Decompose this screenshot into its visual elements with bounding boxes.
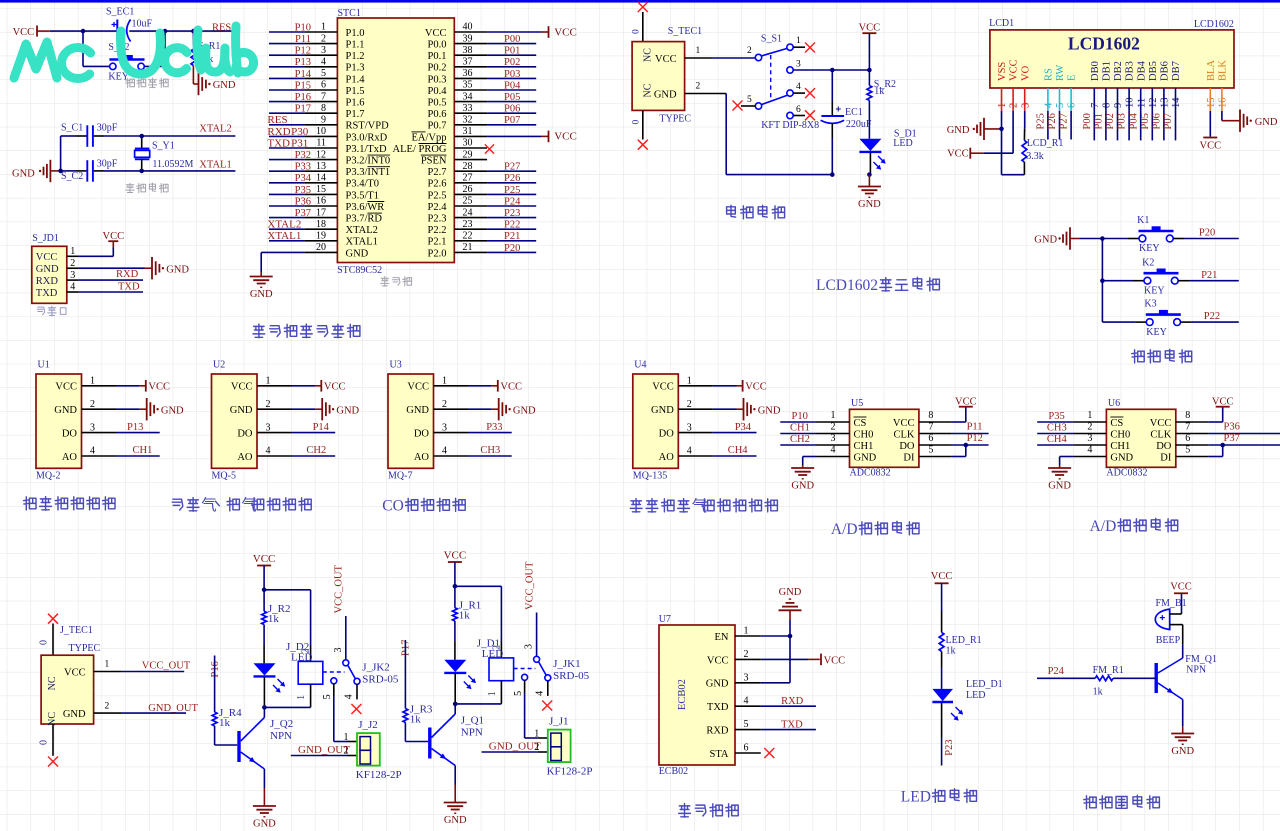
gray caption jing-zhen-dian-lu (crystal circuit) bbox=[126, 183, 134, 193]
svg-text:P15: P15 bbox=[295, 80, 311, 91]
svg-text:38: 38 bbox=[463, 45, 473, 56]
svg-text:LCD1602: LCD1602 bbox=[816, 277, 878, 294]
svg-text:17: 17 bbox=[316, 207, 326, 218]
svg-text:CS: CS bbox=[1110, 418, 1123, 429]
svg-text:P06: P06 bbox=[504, 104, 520, 115]
wire U5 CLK to net P11 bbox=[952, 421, 989, 433]
power port VCC (buzzer) bbox=[1170, 582, 1192, 614]
capacitor S_C1 30pF bbox=[61, 122, 118, 146]
svg-text:VCC: VCC bbox=[324, 382, 346, 393]
svg-text:4: 4 bbox=[266, 446, 271, 457]
svg-text:A/D: A/D bbox=[831, 521, 858, 538]
LCD module LCD1 LCD1602 bbox=[989, 18, 1234, 88]
sensor module U2 MQ-5 bbox=[212, 359, 292, 481]
transistor J_Q1 NPN bbox=[430, 704, 484, 803]
svg-text:P23: P23 bbox=[504, 208, 520, 219]
svg-text:0: 0 bbox=[39, 740, 50, 745]
relay J_JK1 switch contacts bbox=[513, 561, 590, 696]
svg-text:P3.3/INT1: P3.3/INT1 bbox=[346, 167, 391, 178]
power port VCC (pin31) bbox=[549, 131, 577, 143]
svg-text:GND_OUT: GND_OUT bbox=[148, 703, 198, 714]
svg-text:NPN: NPN bbox=[270, 730, 292, 742]
svg-text:P05: P05 bbox=[504, 92, 520, 103]
svg-text:DO: DO bbox=[237, 429, 253, 440]
svg-text:31: 31 bbox=[463, 126, 473, 137]
svg-text:12: 12 bbox=[1148, 98, 1159, 109]
wire U7 RXD to net TXD bbox=[761, 720, 816, 731]
svg-text:P2.3: P2.3 bbox=[428, 214, 447, 225]
title natural gas / coal gas detect bbox=[172, 499, 183, 510]
svg-text:LCD1602: LCD1602 bbox=[1194, 19, 1234, 30]
ground GND (U1, side style) bbox=[146, 398, 148, 420]
svg-text:P1.5: P1.5 bbox=[346, 86, 365, 97]
svg-text:5: 5 bbox=[321, 68, 326, 79]
svg-text:1: 1 bbox=[296, 695, 307, 700]
svg-text:GND: GND bbox=[1171, 746, 1194, 757]
svg-text:3: 3 bbox=[744, 672, 749, 683]
svg-text:0: 0 bbox=[39, 640, 50, 645]
capacitor S_C2 30pF bbox=[61, 159, 118, 183]
ground GND (key circuit, side style mirrored) bbox=[1034, 227, 1080, 249]
svg-text:VCC: VCC bbox=[1170, 582, 1192, 593]
ground GND (LCD VSS, side style) bbox=[947, 118, 1002, 140]
svg-text:J_J2: J_J2 bbox=[358, 719, 378, 731]
svg-text:2: 2 bbox=[492, 645, 503, 650]
wire BLA to VCC below bbox=[1209, 111, 1211, 137]
svg-text:P34: P34 bbox=[735, 422, 752, 433]
svg-text:10uF: 10uF bbox=[132, 18, 153, 29]
svg-text:1: 1 bbox=[1087, 410, 1092, 421]
svg-text:NPN: NPN bbox=[1186, 664, 1206, 675]
svg-text:1: 1 bbox=[105, 660, 110, 670]
svg-text:MQ-5: MQ-5 bbox=[212, 471, 236, 482]
wire U1 pin1 to VCC bbox=[116, 385, 146, 387]
svg-text:P35: P35 bbox=[1048, 411, 1064, 422]
svg-text:CS: CS bbox=[854, 418, 867, 429]
svg-text:CH1: CH1 bbox=[854, 441, 874, 452]
svg-text:GND: GND bbox=[12, 168, 35, 179]
svg-text:P32: P32 bbox=[295, 150, 311, 161]
svg-text:P27: P27 bbox=[1059, 113, 1070, 129]
svg-text:8: 8 bbox=[1102, 103, 1113, 108]
svg-text:6: 6 bbox=[1185, 433, 1190, 444]
power port VCC (download) bbox=[108, 240, 118, 242]
svg-text:XTAL2: XTAL2 bbox=[267, 219, 301, 231]
svg-text:GND: GND bbox=[346, 248, 369, 259]
svg-text:10: 10 bbox=[316, 126, 326, 137]
wire BLK to GND right bbox=[1222, 111, 1240, 121]
svg-text:ECB02: ECB02 bbox=[659, 766, 688, 777]
svg-text:10: 10 bbox=[1125, 98, 1136, 109]
svg-text:KFT DIP-8X8: KFT DIP-8X8 bbox=[761, 120, 819, 131]
svg-text:2: 2 bbox=[266, 399, 271, 410]
sheet border top edge bbox=[0, 0, 1280, 3]
junction at LED bottom rail bbox=[867, 172, 872, 177]
ground GND (buzzer) bbox=[1171, 733, 1194, 735]
LED LED_D1 bbox=[932, 667, 1002, 766]
svg-text:LED: LED bbox=[901, 789, 931, 806]
svg-text:1: 1 bbox=[344, 732, 349, 743]
svg-text:GND: GND bbox=[706, 679, 729, 690]
svg-text:P27: P27 bbox=[504, 162, 520, 173]
wire pin 31 EA/Vpp to VCC bbox=[487, 135, 548, 137]
svg-text:30pF: 30pF bbox=[97, 159, 118, 170]
svg-text:A/D: A/D bbox=[1090, 518, 1117, 535]
svg-text:S_EC1: S_EC1 bbox=[106, 7, 134, 18]
relay J_JK2 switch contacts bbox=[322, 564, 399, 699]
svg-text:P2.4: P2.4 bbox=[428, 202, 448, 213]
svg-text:12: 12 bbox=[316, 149, 326, 160]
wire nets RXD/P30 to pin 10 bbox=[267, 126, 308, 138]
svg-text:19: 19 bbox=[316, 231, 326, 242]
svg-text:RST/VPD: RST/VPD bbox=[346, 121, 390, 132]
svg-text:DB5: DB5 bbox=[1148, 61, 1159, 81]
capacitor EC1 220uF electrolytic bbox=[821, 70, 872, 175]
wire U5 pin8 to VCC bbox=[952, 407, 966, 422]
no-connect X at S_S1 pin1 bbox=[805, 43, 815, 53]
svg-text:U3: U3 bbox=[390, 359, 402, 370]
svg-text:NC: NC bbox=[643, 83, 654, 97]
svg-text:CH0: CH0 bbox=[1110, 429, 1130, 440]
svg-text:1k: 1k bbox=[268, 613, 280, 625]
svg-text:DI: DI bbox=[1160, 452, 1172, 463]
svg-text:3: 3 bbox=[1087, 433, 1092, 444]
svg-text:35: 35 bbox=[463, 80, 473, 91]
svg-text:U7: U7 bbox=[659, 614, 671, 625]
svg-text:LED_R1: LED_R1 bbox=[946, 635, 982, 646]
junction at EC1 bottom bbox=[830, 172, 835, 177]
resistor S_R1 10k bbox=[191, 31, 220, 84]
svg-text:2: 2 bbox=[344, 745, 349, 756]
svg-text:FM_R1: FM_R1 bbox=[1093, 665, 1124, 676]
svg-text:DB1: DB1 bbox=[1102, 61, 1113, 81]
resistor J_R4 1k with net P16 bbox=[210, 656, 242, 746]
svg-text:5: 5 bbox=[744, 719, 749, 730]
svg-text:20: 20 bbox=[316, 242, 326, 253]
svg-text:KEY: KEY bbox=[1139, 243, 1160, 254]
svg-text:1: 1 bbox=[487, 691, 498, 696]
svg-text:VCC: VCC bbox=[947, 148, 969, 159]
svg-text:6: 6 bbox=[1067, 103, 1078, 108]
title dan-pian-ji minimal system bbox=[253, 324, 265, 338]
svg-text:CH3: CH3 bbox=[1047, 422, 1067, 433]
svg-text:DO: DO bbox=[62, 429, 78, 440]
svg-text:2: 2 bbox=[831, 422, 836, 433]
dip switch S_S1 KFT DIP-8X8 bbox=[712, 33, 805, 118]
junction U7 EN bbox=[788, 634, 793, 639]
wire U6 CLK to net P36 bbox=[1209, 421, 1280, 433]
svg-text:P34: P34 bbox=[295, 173, 312, 184]
svg-text:27: 27 bbox=[463, 173, 473, 184]
svg-text:14: 14 bbox=[1171, 97, 1182, 108]
svg-text:P13: P13 bbox=[295, 57, 311, 68]
svg-text:P10: P10 bbox=[792, 411, 808, 422]
ground GND (U2, side style) bbox=[321, 398, 323, 420]
wire VCC to relay coil top bbox=[264, 590, 311, 662]
svg-text:5: 5 bbox=[1185, 445, 1190, 456]
ground GND (below S_R1) bbox=[193, 73, 235, 95]
svg-text:VCC: VCC bbox=[554, 131, 577, 143]
ground GND (LCD backlight, side style) bbox=[1240, 110, 1278, 132]
wires P00-P07 from pins 39-32 bbox=[487, 34, 536, 126]
svg-text:VCC: VCC bbox=[554, 26, 577, 38]
svg-text:1: 1 bbox=[534, 729, 539, 740]
svg-text:30: 30 bbox=[463, 138, 473, 149]
svg-text:P2.1: P2.1 bbox=[428, 237, 447, 248]
push button K2 KEY bbox=[1102, 257, 1189, 296]
svg-text:BLA: BLA bbox=[1206, 60, 1217, 81]
svg-text:S_TEC1: S_TEC1 bbox=[668, 26, 702, 37]
wire net XTAL1 to pin 19 bbox=[267, 230, 304, 242]
svg-text:TXD: TXD bbox=[707, 702, 729, 713]
resistor J_R1 1k bbox=[453, 586, 482, 660]
svg-text:VCC: VCC bbox=[655, 54, 677, 65]
buzzer FM_B1 BEEP bbox=[1155, 598, 1186, 646]
svg-text:P31: P31 bbox=[291, 137, 308, 149]
svg-text:GND: GND bbox=[1034, 234, 1057, 245]
svg-text:2: 2 bbox=[321, 33, 326, 44]
wire VSS to GND rail and contrast loop bbox=[1002, 111, 1025, 175]
wire S_JD1 pin2 to GND bbox=[79, 267, 145, 269]
wire J_JK1 pin5 to J_J1 pin1 bbox=[525, 693, 550, 739]
svg-text:VCC: VCC bbox=[231, 382, 253, 393]
svg-text:4: 4 bbox=[1044, 102, 1055, 108]
junction key row1 bbox=[1100, 236, 1105, 241]
svg-text:KF128-2P: KF128-2P bbox=[356, 769, 402, 781]
junction at C1/GND corner bbox=[58, 169, 63, 174]
wire U5 DI loop to DO bbox=[952, 445, 966, 457]
svg-text:4: 4 bbox=[535, 691, 546, 696]
svg-text:S_C2: S_C2 bbox=[61, 171, 83, 182]
power port VCC (LCD backlight, bar up) bbox=[1200, 138, 1222, 152]
svg-text:P0.5: P0.5 bbox=[428, 98, 447, 109]
svg-text:LED: LED bbox=[893, 138, 912, 149]
svg-text:3: 3 bbox=[831, 433, 836, 444]
svg-text:6: 6 bbox=[928, 433, 933, 444]
svg-text:P37: P37 bbox=[295, 208, 311, 219]
svg-text:GND: GND bbox=[791, 481, 814, 492]
svg-text:LCD1: LCD1 bbox=[989, 18, 1014, 29]
wire U7 VCC pin2 bbox=[761, 658, 820, 660]
svg-text:33: 33 bbox=[463, 103, 473, 114]
junction at S_R2 top bbox=[867, 68, 872, 73]
svg-text:DB2: DB2 bbox=[1113, 61, 1124, 81]
svg-text:VCC: VCC bbox=[893, 418, 915, 429]
svg-text:DB0: DB0 bbox=[1090, 61, 1101, 81]
svg-text:RES: RES bbox=[267, 114, 287, 126]
svg-text:GND: GND bbox=[654, 89, 677, 100]
wire U4 AO to net CH4 bbox=[713, 445, 757, 456]
svg-text:P20: P20 bbox=[1199, 228, 1215, 239]
svg-text:VCC: VCC bbox=[1212, 397, 1234, 408]
svg-text:GND_OUT: GND_OUT bbox=[489, 740, 541, 752]
svg-text:4: 4 bbox=[70, 282, 75, 293]
power port VCC (relay J_JK1) bbox=[444, 549, 467, 586]
svg-text:P17: P17 bbox=[295, 104, 311, 115]
svg-text:VCC: VCC bbox=[824, 655, 846, 666]
svg-text:2: 2 bbox=[1087, 422, 1092, 433]
svg-text:2: 2 bbox=[70, 258, 75, 269]
junction VCC split (J_R2) bbox=[262, 588, 267, 593]
svg-text:CLK: CLK bbox=[894, 429, 915, 440]
ground GND (download, side style) bbox=[145, 257, 190, 279]
svg-text:22: 22 bbox=[463, 231, 473, 242]
ground GND (above U7, flipped) bbox=[779, 587, 802, 620]
wire net RES to pin 9 bbox=[267, 114, 304, 126]
wire U1 AO to net CH1 bbox=[116, 445, 160, 456]
svg-text:P04: P04 bbox=[504, 80, 521, 91]
wire key2 to net P21 bbox=[1190, 270, 1239, 281]
svg-text:4: 4 bbox=[831, 445, 836, 456]
svg-text:13: 13 bbox=[316, 161, 326, 172]
svg-text:3.3k: 3.3k bbox=[1026, 151, 1044, 162]
svg-text:P1.4: P1.4 bbox=[346, 74, 366, 85]
svg-text:P03: P03 bbox=[504, 69, 520, 80]
power port VCC (U5) bbox=[959, 406, 973, 408]
svg-text:P05: P05 bbox=[1140, 113, 1151, 129]
wire U1 DO to net P13 bbox=[116, 422, 160, 433]
svg-text:5: 5 bbox=[322, 694, 333, 699]
svg-text:P33: P33 bbox=[486, 422, 502, 433]
wires U5 input nets bbox=[780, 411, 816, 445]
svg-text:DO: DO bbox=[899, 441, 915, 452]
svg-text:GND: GND bbox=[36, 264, 59, 275]
svg-text:RES: RES bbox=[212, 23, 231, 34]
svg-text:8: 8 bbox=[1185, 410, 1190, 421]
gray caption an-jian-fu-wei (key reset) bbox=[126, 78, 135, 87]
svg-text:P26: P26 bbox=[1047, 113, 1058, 129]
wires P10-P17 to STC1 pins 1-8 with net labels bbox=[269, 22, 312, 114]
resistor J_R3 1k with net P17 bbox=[401, 640, 433, 742]
power port VCC (reset rail) bbox=[13, 26, 50, 39]
svg-text:P14: P14 bbox=[295, 69, 312, 80]
svg-text:VCC: VCC bbox=[444, 549, 467, 561]
svg-text:VCC_OUT: VCC_OUT bbox=[524, 561, 535, 610]
net label P24 and wire bbox=[1037, 666, 1095, 678]
svg-text:P16: P16 bbox=[295, 92, 311, 103]
wire J_TEC1 pin1 to net VCC_OUT bbox=[121, 661, 191, 672]
connector S_TEC1 TYPEC bbox=[632, 26, 726, 111]
svg-text:K2: K2 bbox=[1142, 257, 1154, 268]
svg-text:P12: P12 bbox=[295, 46, 311, 57]
svg-text:P3.0/RxD: P3.0/RxD bbox=[346, 132, 388, 143]
svg-text:GND: GND bbox=[230, 405, 253, 416]
svg-text:J_J1: J_J1 bbox=[549, 716, 569, 728]
svg-text:U5: U5 bbox=[851, 398, 863, 409]
svg-text:AO: AO bbox=[62, 452, 78, 463]
svg-text:AO: AO bbox=[659, 452, 675, 463]
svg-text:3: 3 bbox=[524, 644, 535, 649]
svg-text:J_JK2: J_JK2 bbox=[362, 661, 390, 673]
svg-text:4: 4 bbox=[321, 57, 326, 68]
power port VCC (LED circuit) bbox=[931, 571, 953, 611]
svg-text:0: 0 bbox=[632, 29, 642, 34]
wire key1 to net P20 bbox=[1185, 228, 1239, 239]
svg-text:18: 18 bbox=[316, 219, 326, 230]
gray caption dan-pian-ji (MCU) bbox=[381, 277, 389, 287]
wire U2 pin2 to GND bbox=[292, 408, 323, 410]
svg-text:GND: GND bbox=[947, 125, 970, 136]
svg-text:VCC: VCC bbox=[652, 382, 674, 393]
transistor J_Q2 NPN bbox=[239, 707, 293, 806]
relay J_JK1 SRD-05 coil bbox=[455, 645, 513, 704]
svg-text:P2.6: P2.6 bbox=[428, 179, 447, 190]
wire U5 DO to net P12 bbox=[952, 433, 989, 445]
svg-text:25: 25 bbox=[463, 196, 473, 207]
terminal J_J2 KF128-2P bbox=[344, 719, 402, 781]
svg-text:CH2: CH2 bbox=[790, 434, 810, 445]
svg-text:P03: P03 bbox=[1117, 113, 1128, 129]
svg-text:1k: 1k bbox=[219, 717, 231, 729]
no-connect X at J_JK2 pin4 bbox=[351, 704, 361, 714]
svg-text:3: 3 bbox=[333, 648, 344, 653]
svg-text:P1.7: P1.7 bbox=[346, 109, 365, 120]
svg-text:SRD-05: SRD-05 bbox=[362, 673, 399, 685]
svg-text:MQ-2: MQ-2 bbox=[36, 471, 60, 482]
svg-text:EA/Vpp: EA/Vpp bbox=[412, 132, 447, 143]
svg-text:CH0: CH0 bbox=[854, 429, 874, 440]
svg-text:VCC: VCC bbox=[500, 382, 522, 393]
svg-text:DI: DI bbox=[903, 452, 915, 463]
svg-text:P11: P11 bbox=[967, 421, 983, 432]
junction crystal bottom bbox=[139, 169, 144, 174]
wire U7 EN/GND to ground rail bbox=[761, 620, 790, 683]
svg-text:VCC: VCC bbox=[1150, 418, 1172, 429]
svg-text:S_S1: S_S1 bbox=[761, 33, 782, 44]
svg-text:VCC: VCC bbox=[36, 252, 58, 263]
svg-text:J_JK1: J_JK1 bbox=[553, 658, 581, 670]
LCD pin numbers 1-16 bbox=[997, 97, 1228, 108]
svg-text:2: 2 bbox=[301, 649, 312, 654]
svg-text:LCD_R1: LCD_R1 bbox=[1027, 138, 1064, 149]
svg-text:P33: P33 bbox=[295, 162, 311, 173]
caption xia-zai-kou (download port) bbox=[37, 307, 45, 315]
svg-text:37: 37 bbox=[463, 57, 473, 68]
svg-text:15: 15 bbox=[316, 184, 326, 195]
svg-text:14: 14 bbox=[316, 173, 326, 184]
svg-text:P30: P30 bbox=[291, 126, 309, 138]
svg-text:1k: 1k bbox=[459, 610, 471, 622]
wires LCD DB0-DB7 to nets P00-P07 bbox=[1094, 111, 1175, 140]
title dian-yuan-dian-lu (power circuit) bbox=[727, 205, 736, 217]
svg-text:P3.6/WR: P3.6/WR bbox=[346, 202, 385, 213]
svg-text:4: 4 bbox=[744, 696, 749, 707]
wire VCC to relay coil top bbox=[455, 586, 502, 658]
net label TXD + wire pin4 bbox=[79, 281, 143, 292]
svg-text:CH2: CH2 bbox=[306, 445, 326, 456]
svg-text:2: 2 bbox=[744, 649, 749, 660]
svg-text:GND: GND bbox=[1110, 452, 1133, 463]
power port VCC (power circuit) bbox=[859, 23, 881, 70]
svg-text:U1: U1 bbox=[38, 359, 50, 370]
svg-text:VCC: VCC bbox=[64, 667, 86, 678]
net labels P00-P07 rotated bbox=[1082, 112, 1174, 129]
svg-text:P37: P37 bbox=[1224, 433, 1240, 444]
junction at S_S2 right branch bbox=[163, 29, 168, 34]
resistor FM_R1 1k bbox=[1093, 665, 1155, 698]
svg-text:GND_OUT: GND_OUT bbox=[298, 744, 350, 756]
svg-text:7: 7 bbox=[1090, 103, 1101, 108]
capacitor S_EC1 10uF bbox=[106, 7, 153, 42]
ground GND (below J_Q2) bbox=[253, 805, 276, 807]
wires U6 input nets bbox=[1037, 411, 1073, 445]
svg-text:16: 16 bbox=[316, 196, 326, 207]
svg-text:AO: AO bbox=[414, 452, 430, 463]
svg-text:1: 1 bbox=[90, 376, 95, 387]
svg-text:U6: U6 bbox=[1108, 398, 1120, 409]
title an-jian-dian-lu (key circuit) bbox=[1132, 350, 1144, 363]
svg-text:RW: RW bbox=[1055, 65, 1066, 81]
